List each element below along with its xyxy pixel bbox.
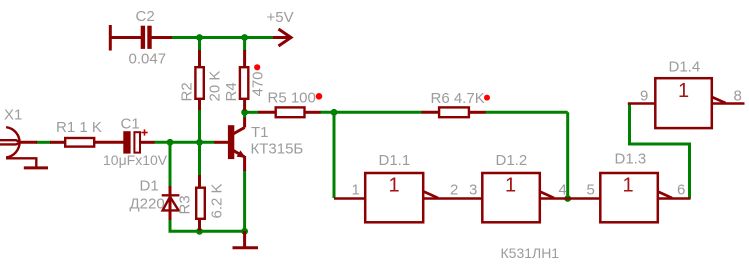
svg-text:C1: C1 bbox=[121, 116, 140, 133]
svg-text:R4: R4 bbox=[223, 82, 240, 101]
svg-text:T1: T1 bbox=[251, 124, 269, 141]
svg-text:+5V: +5V bbox=[267, 9, 294, 26]
svg-text:R6 4.7K: R6 4.7K bbox=[431, 90, 485, 107]
svg-text:20 K: 20 K bbox=[207, 71, 224, 102]
svg-text:6: 6 bbox=[677, 182, 685, 199]
svg-text:1: 1 bbox=[389, 175, 400, 197]
svg-text:9: 9 bbox=[640, 87, 648, 104]
svg-text:КТ315Б: КТ315Б bbox=[251, 141, 304, 158]
svg-text:D1.1: D1.1 bbox=[379, 152, 411, 169]
svg-text:8: 8 bbox=[734, 87, 742, 104]
svg-text:2: 2 bbox=[450, 182, 458, 199]
svg-text:D1.3: D1.3 bbox=[615, 151, 647, 168]
svg-text:1: 1 bbox=[505, 175, 516, 197]
svg-text:R2: R2 bbox=[179, 82, 196, 101]
svg-text:3: 3 bbox=[469, 182, 477, 199]
svg-text:5: 5 bbox=[587, 182, 595, 199]
svg-text:X1: X1 bbox=[4, 107, 22, 124]
svg-text:1: 1 bbox=[352, 182, 360, 199]
svg-text:D1.4: D1.4 bbox=[669, 59, 701, 76]
svg-text:1: 1 bbox=[623, 175, 634, 197]
svg-text:1: 1 bbox=[678, 80, 689, 102]
svg-text:D1: D1 bbox=[140, 177, 159, 194]
svg-text:10μFx10V: 10μFx10V bbox=[103, 152, 168, 168]
svg-text:D1.2: D1.2 bbox=[496, 152, 528, 169]
svg-text:R3: R3 bbox=[177, 195, 194, 214]
svg-text:R1 1 K: R1 1 K bbox=[56, 119, 102, 136]
svg-text:6.2 K: 6.2 K bbox=[209, 183, 226, 218]
svg-text:R5 100: R5 100 bbox=[268, 89, 316, 106]
svg-text:4: 4 bbox=[559, 182, 567, 199]
svg-text:К531ЛН1: К531ЛН1 bbox=[501, 245, 560, 261]
svg-text:Д220: Д220 bbox=[130, 196, 165, 213]
svg-text:C2: C2 bbox=[136, 8, 155, 25]
svg-text:470: 470 bbox=[250, 71, 267, 96]
svg-text:0.047: 0.047 bbox=[129, 51, 167, 68]
